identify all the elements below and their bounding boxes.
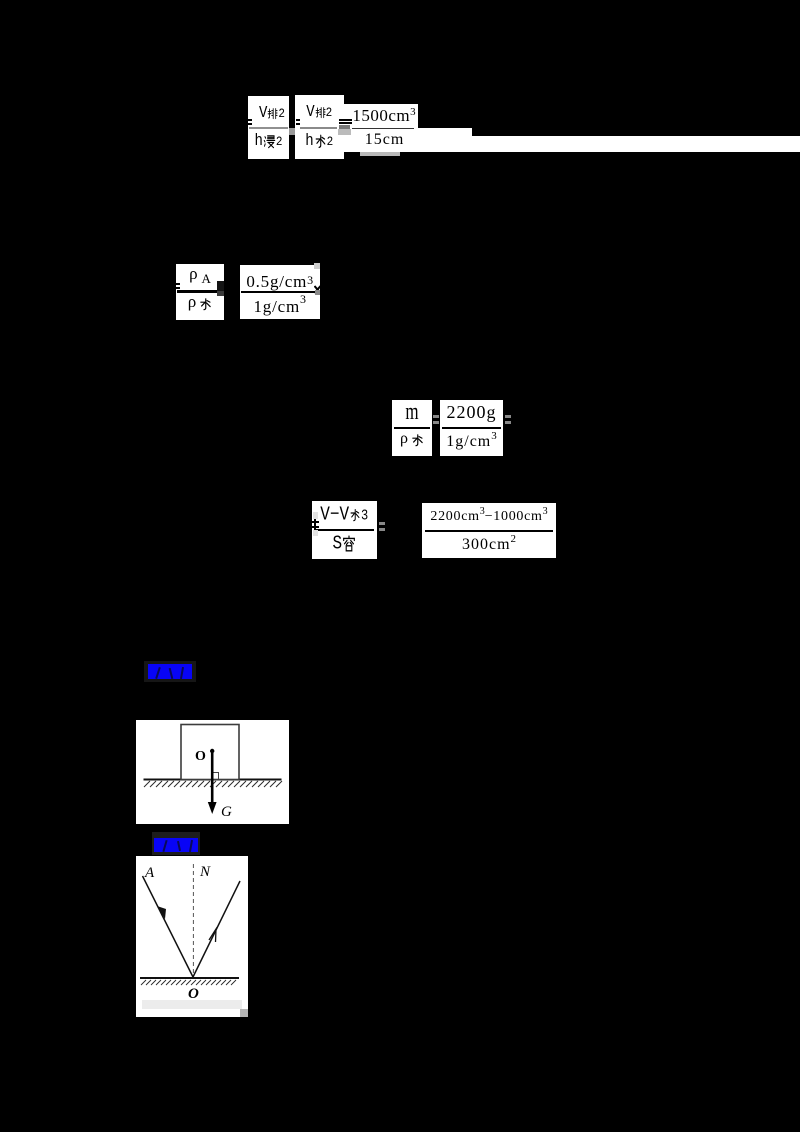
- svg-text:O: O: [195, 749, 206, 764]
- grey block between fractions: [289, 128, 295, 135]
- svg-text:A: A: [144, 865, 155, 881]
- ground line: [144, 779, 282, 781]
- block square: [181, 725, 239, 780]
- fraction 1500cm3/15cm: [337, 104, 418, 152]
- right-angle mark: [213, 773, 219, 780]
- mirror surface line: [140, 977, 239, 979]
- hidden defs for CJK glyph approximations: [0, 0, 5, 5]
- dark equals blob on box right edge: [217, 281, 224, 291]
- bold equals glyph on box left edge: [312, 521, 319, 524]
- hatching under mirror: [141, 980, 236, 985]
- white highlight block right of formula line 1: [417, 128, 472, 153]
- fraction V排2/h浸2: [248, 96, 289, 159]
- black equals nub on box left edge: [176, 283, 180, 289]
- fraction rhoA/rho水: [176, 264, 224, 320]
- fraction V排2/h水2: [295, 95, 344, 159]
- svg-text:G: G: [221, 804, 232, 820]
- equals mark: [433, 415, 439, 424]
- pale band bottom: [142, 1000, 242, 1009]
- hatching under ground: [144, 781, 282, 787]
- fraction 2200g over 1g/cm3: [440, 400, 503, 456]
- black equals nub on box1 left edge: [248, 119, 252, 125]
- gravity arrow: [211, 751, 214, 805]
- fraction (V-V水3)/S容: [312, 501, 378, 559]
- fraction (2200cm3-1000cm3)/300cm2: [422, 503, 556, 558]
- light smudge top-right of box: [314, 263, 321, 269]
- svg-text:O: O: [188, 986, 199, 1002]
- open arrowhead on reflected ray: [209, 929, 216, 942]
- reflected ray O->up-right: [193, 881, 240, 977]
- white highlight strip to page right edge: [472, 136, 800, 153]
- equals mark mid: [379, 522, 385, 531]
- black equals nub on box2 left edge: [296, 119, 300, 125]
- svg-text:N: N: [199, 864, 211, 880]
- bold black equals before 1500: [339, 119, 352, 121]
- fraction 0.5g/cm3 over 1g/cm3: [240, 265, 321, 319]
- normal dashed line: [192, 864, 194, 974]
- incident ray A->O: [143, 876, 194, 977]
- grey smudge under 15cm: [360, 152, 400, 156]
- equals mark right: [505, 415, 511, 424]
- arrowhead on incident ray: [157, 906, 166, 919]
- fraction m/rho水: [392, 400, 432, 456]
- grey corner: [240, 1009, 248, 1017]
- centre of gravity dot: [210, 749, 214, 753]
- black multiply mark on box right edge: [314, 281, 321, 290]
